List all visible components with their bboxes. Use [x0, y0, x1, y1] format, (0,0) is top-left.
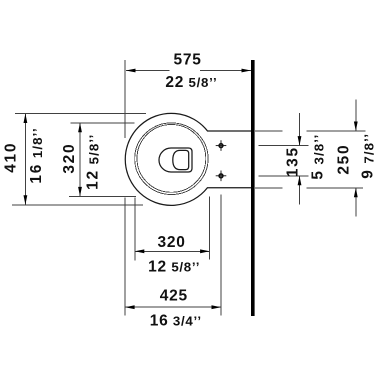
svg-text:9 7/8’’: 9 7/8’’ [360, 133, 377, 179]
svg-text:12 5/8’’: 12 5/8’’ [148, 258, 200, 275]
svg-text:12 5/8’’: 12 5/8’’ [84, 134, 101, 190]
svg-text:16 3/4’’: 16 3/4’’ [150, 313, 202, 330]
svg-text:320: 320 [158, 234, 186, 251]
svg-text:575: 575 [174, 52, 202, 69]
svg-text:250: 250 [336, 144, 353, 175]
svg-text:5 3/8’’: 5 3/8’’ [309, 134, 326, 180]
svg-text:135: 135 [284, 146, 301, 177]
svg-text:22 5/8’’: 22 5/8’’ [165, 74, 217, 91]
svg-text:425: 425 [160, 288, 188, 305]
svg-text:320: 320 [61, 143, 78, 174]
svg-text:410: 410 [3, 142, 20, 173]
svg-text:16 1/8’’: 16 1/8’’ [28, 127, 45, 183]
